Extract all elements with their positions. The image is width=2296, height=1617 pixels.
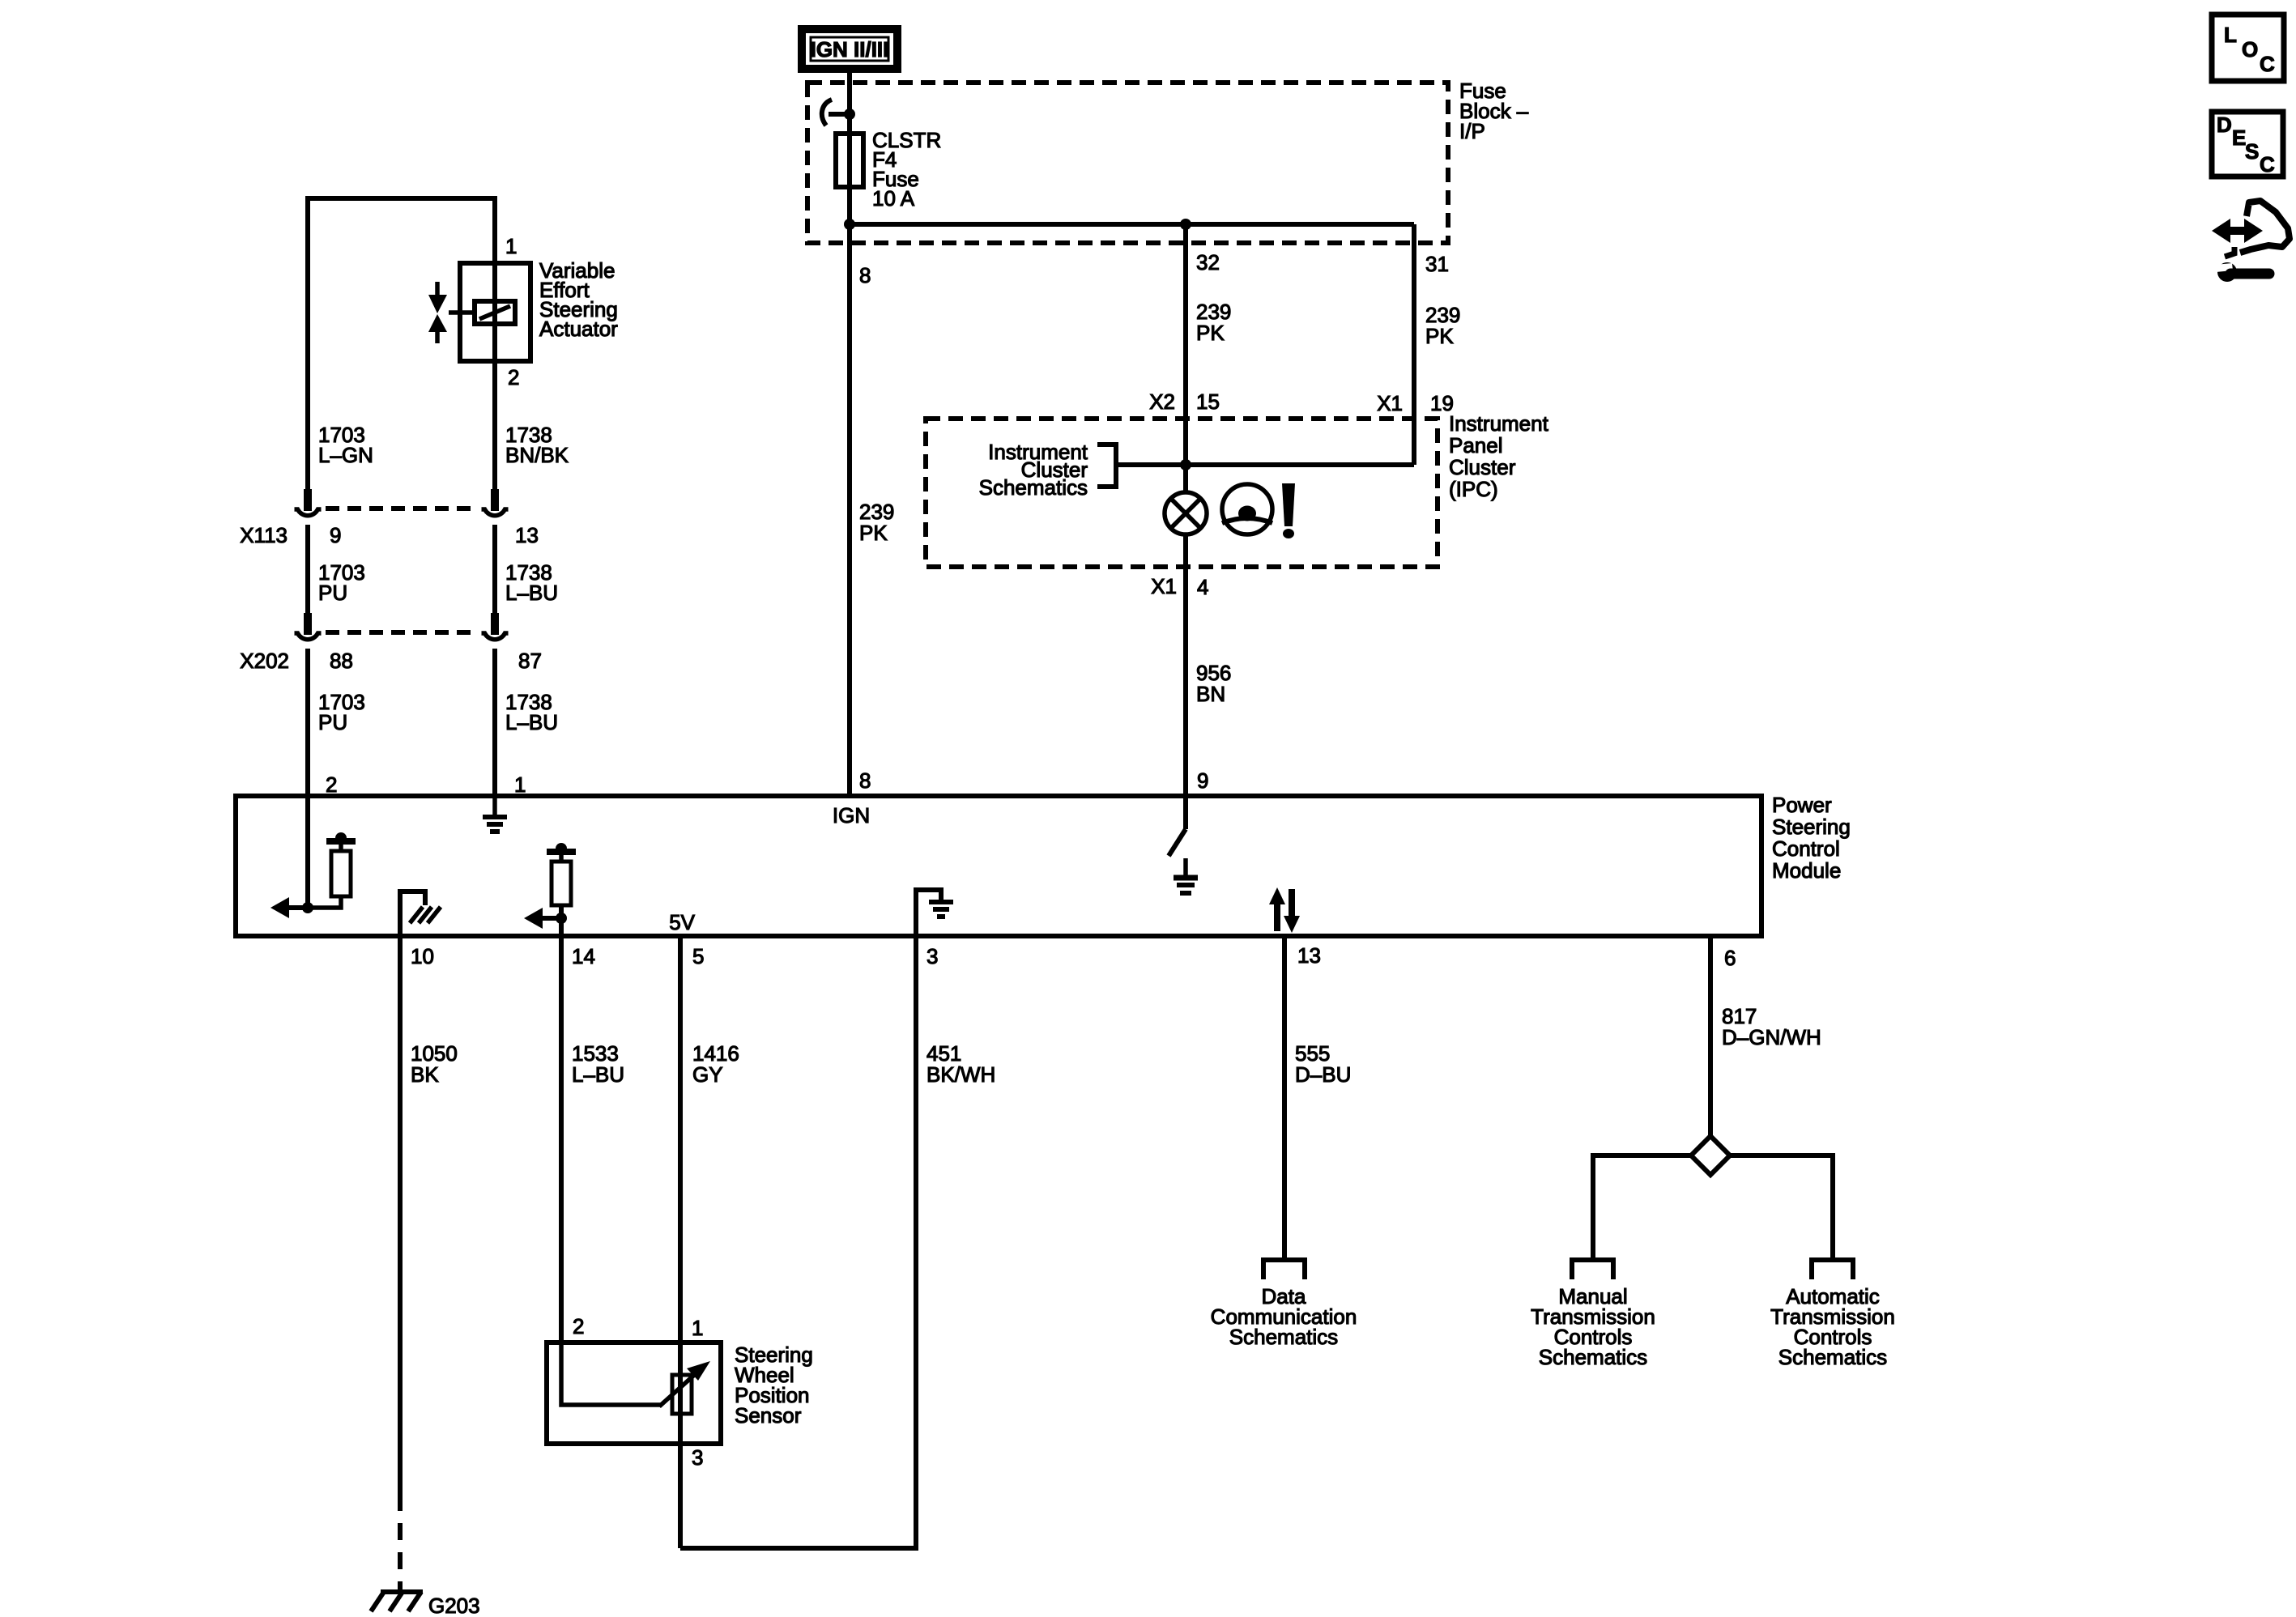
wire 817 D-GN/WH PSCM pin6 xyxy=(1708,934,1713,1137)
svg-text:32: 32 xyxy=(1196,250,1220,274)
svg-text:9: 9 xyxy=(1197,768,1208,793)
PSCM internal switch pin9 xyxy=(1169,798,1198,893)
svg-text:X113: X113 xyxy=(240,523,288,547)
svg-text:BN/BK: BN/BK xyxy=(505,443,569,467)
LOC corner icon xyxy=(2212,15,2284,81)
svg-text:PK: PK xyxy=(1196,321,1225,345)
svg-text:L–BU: L–BU xyxy=(505,581,558,605)
wire IPC internal horizontal xyxy=(1116,462,1414,467)
connector X202 dashed link xyxy=(326,630,478,635)
svg-text:9: 9 xyxy=(330,523,341,547)
connector X202 left half xyxy=(295,613,322,640)
off-page connector manual trans xyxy=(1572,1260,1613,1279)
wire SWPS pin3 down xyxy=(678,1442,683,1548)
svg-text:10: 10 xyxy=(411,944,434,968)
wire bus fuse output horizontal xyxy=(850,222,1414,227)
ignition switch contact hook xyxy=(822,100,850,126)
PSCM internal ground below pin1 xyxy=(483,798,507,832)
svg-text:BK: BK xyxy=(411,1062,439,1087)
svg-text:X1: X1 xyxy=(1377,391,1403,415)
svg-text:L: L xyxy=(2224,23,2237,47)
svg-text:8: 8 xyxy=(859,768,871,793)
svg-text:2: 2 xyxy=(573,1314,584,1338)
svg-text:PK: PK xyxy=(859,521,888,545)
svg-text:3: 3 xyxy=(692,1445,703,1470)
IGN II/III power tag xyxy=(802,29,897,69)
svg-text:D–BU: D–BU xyxy=(1295,1062,1351,1087)
svg-text:10 A: 10 A xyxy=(872,186,915,211)
wire 1533 L-BU PSCM pin14 to SWPS pin2 xyxy=(559,934,564,1344)
wire bottom horizontal SWPS to 451 xyxy=(680,1546,916,1551)
DESC corner icon xyxy=(2212,112,2283,177)
Fuse Block I/P dashed box xyxy=(807,83,1448,243)
svg-text:2: 2 xyxy=(508,365,519,389)
svg-text:4: 4 xyxy=(1197,575,1208,599)
wire 555 D-BU PSCM pin13 xyxy=(1282,934,1287,1260)
svg-text:5: 5 xyxy=(692,944,704,968)
svg-text:Power: Power xyxy=(1772,793,1832,817)
svg-text:D: D xyxy=(2217,113,2232,137)
svg-text:L–BU: L–BU xyxy=(505,710,558,734)
steering wheel indicator icon xyxy=(1222,484,1272,534)
svg-text:13: 13 xyxy=(515,523,539,547)
connector X113 right half xyxy=(482,489,509,516)
junction dot bus to IPC xyxy=(1180,219,1191,230)
actuator valve symbol xyxy=(428,282,447,343)
svg-text:D–GN/WH: D–GN/WH xyxy=(1722,1025,1821,1049)
wire 239 PK to IPC pin15 and 956 BN to PSCM pin9 xyxy=(1183,224,1188,798)
connector X113 left half xyxy=(295,489,322,516)
wire 239 PK to IPC pin19 xyxy=(1412,224,1416,465)
splice diamond xyxy=(1691,1136,1730,1175)
svg-text:Panel: Panel xyxy=(1449,433,1503,457)
svg-text:PU: PU xyxy=(318,710,347,734)
svg-text:Schematics: Schematics xyxy=(1778,1345,1887,1369)
svg-text:1: 1 xyxy=(505,234,517,258)
svg-text:PU: PU xyxy=(318,581,347,605)
svg-text:I/P: I/P xyxy=(1459,119,1485,143)
PSCM internal serial data arrows pin13 xyxy=(1269,887,1300,933)
svg-text:Actuator: Actuator xyxy=(539,317,618,341)
svg-text:X2: X2 xyxy=(1149,389,1175,414)
wire 451 BK/WH PSCM pin3 xyxy=(914,934,918,1551)
svg-text:Schematics: Schematics xyxy=(1229,1325,1338,1349)
svg-text:E: E xyxy=(2232,126,2246,150)
svg-text:G203: G203 xyxy=(428,1594,480,1617)
connector X202 right half xyxy=(482,613,509,640)
wire splice branch right xyxy=(1730,1155,1833,1260)
svg-text:2: 2 xyxy=(326,772,337,797)
svg-text:31: 31 xyxy=(1425,252,1449,276)
svg-text:6: 6 xyxy=(1724,946,1736,970)
indicator lamp xyxy=(1165,492,1207,534)
junction dot IPC internal xyxy=(1180,459,1191,470)
svg-text:Cluster: Cluster xyxy=(1449,455,1516,479)
svg-text:3: 3 xyxy=(926,944,938,968)
bracket instrument cluster schematics xyxy=(1097,445,1116,487)
connector X113 dashed link xyxy=(326,506,478,511)
Power Steering Control Module box xyxy=(236,796,1761,936)
svg-text:14: 14 xyxy=(572,944,595,968)
svg-text:X1: X1 xyxy=(1151,574,1177,598)
wire top loop horizontal 1703/1738 xyxy=(308,196,495,201)
SWPS potentiometer xyxy=(561,1344,710,1442)
svg-text:O: O xyxy=(2242,37,2258,62)
exclamation indicator xyxy=(1282,483,1295,538)
svg-text:15: 15 xyxy=(1196,389,1220,414)
svg-text:Module: Module xyxy=(1772,858,1841,883)
wire 239 PK fuse to PSCM pin8 xyxy=(847,73,852,798)
Steering Wheel Position Sensor box xyxy=(547,1343,721,1444)
svg-text:IGN: IGN xyxy=(833,803,870,828)
svg-text:8: 8 xyxy=(859,263,871,287)
svg-text:(IPC): (IPC) xyxy=(1449,477,1498,501)
actuator solenoid coil xyxy=(449,301,515,324)
svg-text:BK/WH: BK/WH xyxy=(926,1062,995,1087)
svg-text:X202: X202 xyxy=(240,649,289,673)
svg-text:Control: Control xyxy=(1772,836,1840,861)
Variable Effort Steering Actuator box xyxy=(460,263,530,361)
PSCM internal driver pin2 xyxy=(270,798,356,918)
wire 1050 BK dashed to G203 xyxy=(398,1523,403,1589)
wire 1050 BK PSCM pin10 xyxy=(398,934,403,1511)
svg-text:Schematics: Schematics xyxy=(979,475,1088,500)
PSCM internal driver pin14 xyxy=(524,843,576,934)
svg-text:BN: BN xyxy=(1196,682,1225,706)
wire 1703 PU between X113 and X202 xyxy=(305,525,310,615)
svg-text:C: C xyxy=(2260,152,2275,177)
svg-text:L–BU: L–BU xyxy=(572,1062,624,1087)
wire 1703 L-GN left vertical xyxy=(305,196,310,491)
svg-text:GY: GY xyxy=(692,1062,723,1087)
svg-text:1: 1 xyxy=(692,1316,703,1340)
svg-text:1: 1 xyxy=(514,772,526,797)
svg-text:PK: PK xyxy=(1425,324,1454,348)
svg-text:L–GN: L–GN xyxy=(318,443,373,467)
svg-text:Instrument: Instrument xyxy=(1449,411,1549,436)
svg-text:S: S xyxy=(2245,139,2259,164)
svg-text:87: 87 xyxy=(518,649,542,673)
off-page connector 555 xyxy=(1263,1260,1305,1279)
svg-text:Steering: Steering xyxy=(1772,815,1851,839)
wire 1416 GY PSCM pin5 to SWPS pin1 xyxy=(678,934,683,1344)
G203 chassis ground xyxy=(371,1592,423,1611)
Instrument Panel Cluster dashed box xyxy=(926,419,1438,567)
junction dot fuse output xyxy=(844,219,855,230)
svg-text:Sensor: Sensor xyxy=(735,1403,802,1428)
wire splice branch left xyxy=(1593,1155,1691,1260)
svg-text:88: 88 xyxy=(330,649,353,673)
wire 1703 PU to PSCM pin2 xyxy=(305,649,310,798)
PSCM internal case ground pin10 xyxy=(400,891,441,934)
svg-text:IGN II/III: IGN II/III xyxy=(811,37,889,62)
svg-text:13: 13 xyxy=(1297,943,1321,968)
wire 1738 L-BU between X113 and X202 xyxy=(492,525,497,615)
PSCM internal ground pin3 xyxy=(916,890,953,934)
fuse CLSTR F4 10A xyxy=(836,134,863,187)
wire 1738 BN/BK right vertical xyxy=(492,196,497,491)
svg-text:C: C xyxy=(2260,52,2275,76)
svg-text:Schematics: Schematics xyxy=(1539,1345,1647,1369)
off-page connector automatic trans xyxy=(1812,1260,1853,1279)
svg-text:5V: 5V xyxy=(669,910,695,934)
junction dot fuse switch xyxy=(844,109,855,120)
wire 1738 L-BU to PSCM pin1 xyxy=(492,649,497,798)
navigation arrow-hand-wrench icon xyxy=(2212,201,2290,282)
